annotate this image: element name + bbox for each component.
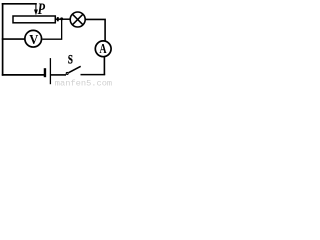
voltmeter V — [25, 30, 42, 47]
wire battery to switch pivot — [51, 74, 66, 76]
rheostat body (slide resistor box) — [13, 16, 55, 23]
svg-text:V: V — [29, 31, 39, 47]
rheostat wiper arrowhead — [34, 10, 38, 16]
wire voltmeter left lead — [2, 38, 25, 40]
svg-text:A: A — [99, 40, 106, 56]
svg-text:P: P — [38, 0, 46, 18]
junction node dot — [60, 17, 63, 20]
wire voltmeter branch: vertical from node then left to voltmeter — [42, 19, 61, 39]
wire bottom left segment to battery — [2, 74, 44, 76]
wire lamp right lead with corner down to ammeter — [86, 19, 106, 41]
wire left frame vertical — [2, 3, 4, 76]
wire bottom right segment — [81, 74, 106, 76]
wire top from left frame to wiper — [2, 3, 37, 5]
rheostat right terminal tick — [57, 17, 59, 21]
lamp (circle with X) — [70, 12, 85, 27]
svg-text:S: S — [68, 53, 73, 67]
battery short negative plate — [44, 68, 46, 77]
wire rheostat right terminal to lamp — [55, 18, 70, 20]
switch S pivot circle — [66, 72, 68, 74]
svg-text:manfen5.com: manfen5.com — [55, 79, 112, 87]
wire ammeter lower lead — [103, 57, 105, 75]
battery long positive plate — [49, 58, 51, 84]
ammeter A — [95, 40, 111, 57]
switch S lever — [69, 66, 81, 72]
rheostat wiper arrow shaft — [35, 4, 37, 10]
